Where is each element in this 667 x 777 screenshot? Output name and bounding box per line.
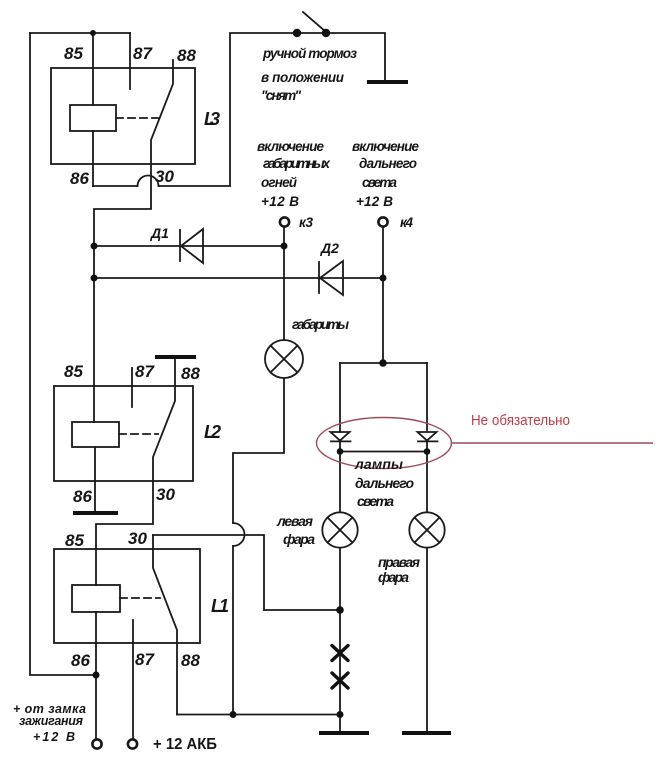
svg-text:30: 30 <box>156 485 175 504</box>
svg-text:30: 30 <box>155 167 174 186</box>
svg-text:фара: фара <box>283 531 315 547</box>
svg-text:"снят": "снят" <box>261 88 302 103</box>
svg-text:света: света <box>362 175 397 190</box>
svg-text:L3: L3 <box>204 109 220 129</box>
svg-text:включение: включение <box>352 139 419 154</box>
svg-text:к3: к3 <box>299 215 313 230</box>
svg-text:включение: включение <box>257 139 324 154</box>
svg-text:правая: правая <box>378 554 420 570</box>
svg-text:фара: фара <box>378 569 409 585</box>
svg-text:Д1: Д1 <box>150 225 169 241</box>
svg-text:Не обязательно: Не обязательно <box>471 412 570 429</box>
svg-text:85: 85 <box>64 362 83 381</box>
svg-text:87: 87 <box>133 44 153 63</box>
svg-text:87: 87 <box>135 650 155 669</box>
svg-text:88: 88 <box>181 651 200 670</box>
svg-text:+ 12 АКБ: + 12 АКБ <box>153 736 217 753</box>
svg-text:огней: огней <box>261 175 298 190</box>
svg-text:габариты: габариты <box>292 317 349 332</box>
svg-text:88: 88 <box>181 364 200 383</box>
svg-text:86: 86 <box>70 169 89 188</box>
svg-text:L1: L1 <box>211 596 229 616</box>
svg-text:ручной тормоз: ручной тормоз <box>262 46 357 61</box>
svg-text:лампы: лампы <box>354 456 403 472</box>
svg-text:87: 87 <box>135 362 155 381</box>
svg-text:зажигания: зажигания <box>19 714 84 728</box>
svg-text:+12 В: +12 В <box>261 194 299 209</box>
svg-text:к4: к4 <box>400 215 413 230</box>
svg-text:+12 В: +12 В <box>33 730 75 744</box>
svg-text:дальнего: дальнего <box>355 475 414 491</box>
svg-text:30: 30 <box>128 529 147 548</box>
svg-text:85: 85 <box>65 531 84 550</box>
svg-text:света: света <box>357 493 394 509</box>
svg-text:в положении: в положении <box>261 70 345 85</box>
svg-text:L2: L2 <box>204 422 221 442</box>
svg-text:86: 86 <box>71 651 90 670</box>
svg-text:левая: левая <box>276 513 313 529</box>
svg-text:Д2: Д2 <box>320 240 339 256</box>
svg-text:габаритных: габаритных <box>263 156 330 171</box>
svg-text:86: 86 <box>73 487 92 506</box>
svg-text:дальнего: дальнего <box>359 156 417 171</box>
svg-text:85: 85 <box>64 44 83 63</box>
svg-text:+12 В: +12 В <box>356 194 393 209</box>
svg-text:88: 88 <box>177 46 196 65</box>
